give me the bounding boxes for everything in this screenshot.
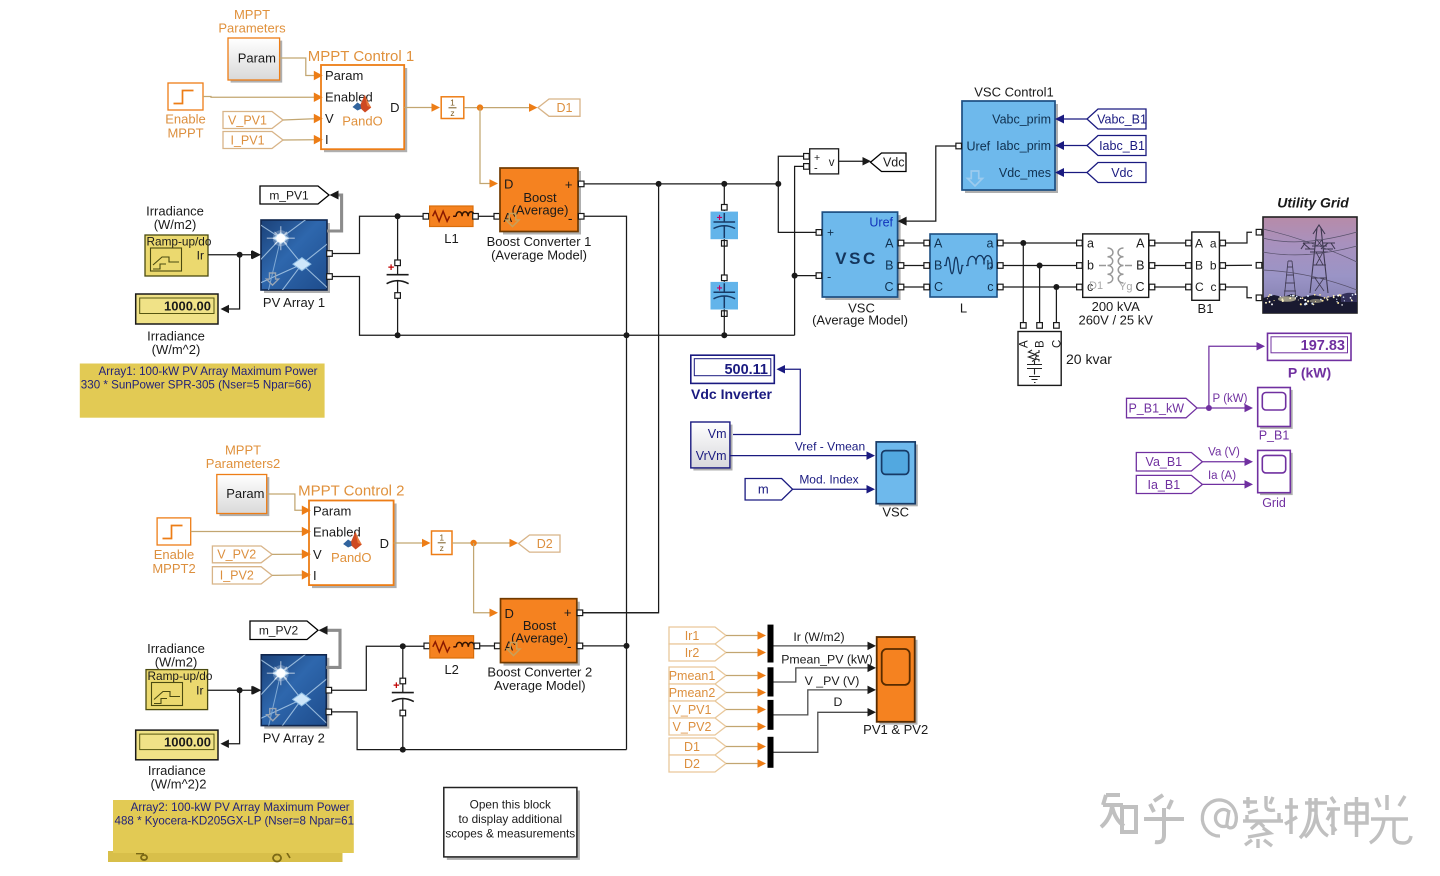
wire Va_B1 to Grid scope <box>1202 461 1246 463</box>
note Array1 annotation <box>80 364 325 418</box>
svg-text:b: b <box>1210 259 1217 273</box>
wire unit delay 2 to D2 goto and Boost2 D input <box>452 542 511 544</box>
wire D output to unit delay <box>404 107 433 109</box>
ports Boost1 outputs <box>578 181 584 187</box>
svg-text:(W/m^2)2: (W/m^2)2 <box>151 777 207 792</box>
svg-text:-: - <box>567 638 572 654</box>
svg-text:-: - <box>827 269 831 284</box>
svg-text:-: - <box>568 210 573 226</box>
capacitor C2 across PV2 <box>400 678 406 684</box>
wires VSC to L <box>904 242 924 244</box>
svg-text:+: + <box>564 605 572 620</box>
svg-text:V_PV2: V_PV2 <box>673 720 712 734</box>
wire DC+ to voltage measurement + and VSC + <box>778 156 804 184</box>
svg-text:scopes & measurements: scopes & measurements <box>445 827 575 841</box>
tag From V_PV2 (scope feed) <box>669 718 726 735</box>
svg-text:D2: D2 <box>684 757 700 771</box>
svg-text:Ir (W/m2): Ir (W/m2) <box>793 630 844 644</box>
wire Boost2 - to common rail <box>583 645 627 647</box>
mux bar 2 (Pmean) <box>768 667 774 696</box>
svg-text:VSC: VSC <box>882 505 909 520</box>
mux bar 3 (V_PV) <box>768 700 774 730</box>
svg-text:D1: D1 <box>557 101 573 115</box>
svg-text:(Average Model): (Average Model) <box>491 248 587 263</box>
wire step to Enabled input <box>203 96 314 99</box>
svg-text:to display additional: to display additional <box>458 812 562 826</box>
capacitor bank upper (blue) <box>723 184 725 211</box>
block three-phase inductor L <box>930 234 997 297</box>
watermark zhihu @ziji-shenguang <box>1101 795 1411 848</box>
svg-text:m_PV2: m_PV2 <box>259 624 299 638</box>
svg-text:P (kW): P (kW) <box>1288 365 1331 381</box>
wire unit delay to D1 goto and to Boost Converter 1 D input <box>464 107 530 109</box>
svg-text:B: B <box>1035 340 1047 348</box>
svg-text:V: V <box>325 111 334 126</box>
svg-text:330 * SunPower SPR-305 (Nser=: 330 * SunPower SPR-305 (Nser=5 Npar=66) <box>81 379 312 392</box>
wire D mux to scope <box>774 712 870 752</box>
svg-text:B: B <box>885 259 893 273</box>
svg-text:MPPT Control 2: MPPT Control 2 <box>298 483 404 500</box>
wire I_PV1 to I input <box>283 139 314 141</box>
tag From V_PV1 <box>223 112 283 129</box>
wire Pmean2 to mux <box>726 692 758 694</box>
svg-text:Vabc_B1: Vabc_B1 <box>1097 112 1147 126</box>
svg-text:z: z <box>450 108 454 118</box>
svg-text:c: c <box>987 280 993 294</box>
svg-text:P_B1: P_B1 <box>1259 429 1290 443</box>
svg-text:A: A <box>1136 237 1145 251</box>
wire between capacitors <box>723 239 725 282</box>
tag From Ia_B1 <box>1136 475 1202 493</box>
mux bar 4 (D) <box>768 737 774 768</box>
svg-text:Open this block: Open this block <box>470 798 551 812</box>
svg-text:PandO: PandO <box>331 550 371 565</box>
svg-text:L1: L1 <box>444 231 458 246</box>
tag From m (modulation index) <box>745 479 793 501</box>
svg-text:b: b <box>1087 259 1094 273</box>
svg-text:L2: L2 <box>444 662 458 677</box>
svg-text:Param: Param <box>325 68 363 83</box>
svg-text:(Average): (Average) <box>511 631 568 646</box>
svg-text:488 * Kyocera-KD205GX-LP (N: 488 * Kyocera-KD205GX-LP (Nser=8 Npar=61 <box>115 815 355 828</box>
inductor L1 <box>423 214 429 220</box>
wire step2 to Enabled <box>191 531 302 533</box>
wires L to transformer with shunt taps <box>1003 242 1078 244</box>
svg-text:Iabc_B1: Iabc_B1 <box>1099 139 1145 153</box>
svg-text:+: + <box>565 177 573 192</box>
svg-text:Array1: 100-kW PV Array Maxim: Array1: 100-kW PV Array Maximum Power <box>99 365 318 378</box>
display Irradiance value 1000.00 <box>136 294 218 324</box>
svg-text:Grid: Grid <box>1262 496 1286 510</box>
svg-text:Param: Param <box>313 503 351 518</box>
svg-text:Uref: Uref <box>869 216 893 230</box>
tag From Ir1 (scope feed) <box>669 627 726 644</box>
svg-text:1000.00: 1000.00 <box>164 735 211 750</box>
ports PV Array 1 outputs <box>327 251 333 257</box>
svg-text:Ir1: Ir1 <box>685 629 700 643</box>
wire Param to MPPT Control 1 <box>280 58 314 76</box>
svg-text:z: z <box>440 543 444 553</box>
port arrows MPPT Control 2 inputs <box>302 506 311 516</box>
svg-text:260V / 25 kV: 260V / 25 kV <box>1078 313 1153 328</box>
svg-text:a: a <box>987 237 994 251</box>
wire V_PV1 to mux <box>726 709 758 711</box>
ports Boost2 outputs <box>577 610 583 616</box>
input arrows VSC Control1 <box>1055 115 1064 124</box>
wire DC+ down to Boost2 + <box>583 184 659 613</box>
svg-text:Yg: Yg <box>1119 281 1132 293</box>
ports utility grid inputs <box>1256 229 1262 235</box>
block step source Enable MPPT2 <box>157 518 191 545</box>
wire PV2 - to bottom rail 2 <box>331 712 626 750</box>
svg-text:I: I <box>325 132 329 147</box>
wire m to VSC scope <box>793 488 868 490</box>
wires from tags to VSC Control1 <box>1064 118 1087 120</box>
svg-text:VrVm: VrVm <box>696 449 727 463</box>
wire PV1 - to bottom rail <box>332 277 795 336</box>
port arrows MPPT Control 1 inputs <box>314 71 323 81</box>
wire Pmean1 to mux <box>726 675 758 677</box>
svg-text:c: c <box>1211 280 1217 294</box>
svg-text:D: D <box>504 177 513 192</box>
wire P_B1_kW to display and scope P_B1 <box>1197 407 1209 409</box>
wire Boost1 + output DC rail <box>584 183 778 185</box>
svg-text:Param: Param <box>226 486 264 501</box>
wire Ir2 to mux <box>726 652 758 654</box>
block Ramp-up/dn irradiance source 2 <box>146 670 208 710</box>
wires down to 20 kvar bank <box>1022 243 1024 323</box>
svg-text:Vm: Vm <box>708 427 727 441</box>
wire V_PV2 to V input <box>272 553 302 555</box>
mux bar 1 (Ir) <box>768 625 774 663</box>
svg-text:D2: D2 <box>537 537 553 551</box>
tag From D2 (scope feed) <box>669 755 726 772</box>
svg-text:D1: D1 <box>684 740 700 754</box>
inductor L2 <box>424 643 430 649</box>
wire irradiance to PV Array 1 and display <box>208 254 252 256</box>
svg-text:Ramp-up/do: Ramp-up/do <box>147 235 212 249</box>
svg-text:V: V <box>313 547 322 562</box>
svg-text:V _PV (V): V _PV (V) <box>805 674 860 688</box>
svg-text:V_PV1: V_PV1 <box>228 113 267 127</box>
block unit delay 1/z <box>441 97 464 119</box>
tag From Ir2 (scope feed) <box>669 644 726 661</box>
block unit delay 1/z (2) <box>432 531 453 555</box>
wire V_PV1 to V input <box>283 119 314 120</box>
capacitor bank lower (blue) <box>711 282 739 310</box>
svg-text:Enable: Enable <box>165 112 205 127</box>
svg-text:A: A <box>934 237 943 251</box>
svg-text:Param: Param <box>238 51 276 66</box>
tag Goto m_PV1 <box>260 186 329 204</box>
scope PV1 & PV2 (orange) <box>880 640 918 725</box>
svg-text:C: C <box>1135 280 1144 294</box>
block Boost Converter 1 (Average Model) <box>503 171 581 235</box>
tag From V_PV1 (scope feed) <box>669 701 726 718</box>
tag Goto D1 <box>538 99 580 116</box>
wire Vm to Vdc Inverter display <box>733 369 800 434</box>
wire v output to Vdc goto <box>839 160 863 162</box>
svg-text:Va (V): Va (V) <box>1208 447 1240 459</box>
svg-text:197.83: 197.83 <box>1301 338 1345 354</box>
svg-text:Utility Grid: Utility Grid <box>1277 195 1349 211</box>
wire irradiance2 to PV Array 2 and display <box>208 689 252 691</box>
svg-text:m_PV1: m_PV1 <box>269 188 309 202</box>
svg-text:1: 1 <box>450 98 455 108</box>
svg-text:Vdc: Vdc <box>883 156 905 170</box>
svg-text:V_PV1: V_PV1 <box>673 703 712 717</box>
svg-text:a: a <box>1210 237 1217 251</box>
svg-text:Vabc_prim: Vabc_prim <box>992 112 1051 126</box>
tag From Pmean1 (scope feed) <box>669 667 726 684</box>
wire L2 to Boost2 A <box>479 645 495 647</box>
svg-text:P_B1_kW: P_B1_kW <box>1128 401 1184 415</box>
svg-text:PV1 & PV2: PV1 & PV2 <box>863 722 928 737</box>
svg-text:MPPT2: MPPT2 <box>152 561 195 576</box>
svg-text:Array2: 100-kW PV Array Maxim: Array2: 100-kW PV Array Maximum Power <box>131 801 350 814</box>
svg-text:-: - <box>814 163 818 175</box>
svg-text:L: L <box>960 301 967 316</box>
svg-text:v: v <box>829 157 835 169</box>
wire Pmean mux to scope <box>774 668 870 682</box>
wire I_PV2 to I input <box>272 574 302 576</box>
capacitor C1 across PV1 <box>395 260 401 266</box>
wire Ir1 to mux <box>726 635 758 637</box>
tag From V_PV2 <box>212 546 272 563</box>
svg-text:PV Array 2: PV Array 2 <box>263 731 325 746</box>
display P (kW) 197.83 <box>1268 333 1352 360</box>
wire V_PV mux to scope <box>774 690 870 715</box>
svg-text:D: D <box>390 100 399 115</box>
svg-text:Vdc_mes: Vdc_mes <box>999 166 1051 180</box>
svg-text:Ir: Ir <box>196 684 203 698</box>
svg-text:VSC: VSC <box>835 249 877 268</box>
svg-text:A: A <box>1195 237 1203 251</box>
block Boost Converter 2 (Average Model) <box>504 602 580 666</box>
svg-text:Average Model): Average Model) <box>494 678 586 693</box>
tag Goto m_PV2 <box>250 621 318 640</box>
svg-text:Mod. Index: Mod. Index <box>799 473 858 487</box>
wire Param2 to MPPT Control 2 <box>267 494 302 510</box>
tag Goto Vdc <box>871 153 907 172</box>
wire m_PV1 measurement (thick) <box>327 195 342 231</box>
block voltage measurement Vdc <box>810 149 839 174</box>
svg-text:Ia_B1: Ia_B1 <box>1148 478 1181 492</box>
svg-text:+: + <box>388 262 394 274</box>
svg-text:Uref: Uref <box>967 140 991 154</box>
display Vdc Inverter 500.11 <box>691 355 775 383</box>
wire Uref from VSC Control1 <box>903 146 958 221</box>
scope Grid <box>1260 453 1293 495</box>
svg-text:PandO: PandO <box>342 114 382 129</box>
svg-text:I_PV1: I_PV1 <box>230 133 264 147</box>
svg-text:Vref - Vmean: Vref - Vmean <box>795 440 865 454</box>
wire Ir mux to scope <box>774 645 870 647</box>
svg-text:A: A <box>885 237 894 251</box>
tag From I_PV1 <box>223 132 283 149</box>
svg-text:MPPT Control 1: MPPT Control 1 <box>308 48 414 65</box>
svg-text:+: + <box>717 213 723 224</box>
svg-text:P (kW): P (kW) <box>1213 393 1248 405</box>
svg-text:Vdc Inverter: Vdc Inverter <box>691 386 772 402</box>
wire Boost2 + up to DC rail <box>583 612 659 614</box>
block three-phase measurement B1 <box>1192 232 1220 300</box>
block step source Enable MPPT <box>168 83 203 110</box>
svg-text:Ramp-up/do: Ramp-up/do <box>148 669 213 683</box>
svg-text:Iabc_prim: Iabc_prim <box>996 139 1051 153</box>
wire L1 to Boost A <box>478 215 494 217</box>
note Open this block box <box>447 791 580 860</box>
svg-text:C: C <box>1195 280 1204 294</box>
svg-text:B1: B1 <box>1198 301 1214 316</box>
svg-text:Pmean2: Pmean2 <box>669 686 716 700</box>
svg-text:a: a <box>1087 237 1094 251</box>
svg-text:Parameters: Parameters <box>218 21 286 36</box>
svg-text:D: D <box>505 606 514 621</box>
svg-text:B: B <box>1195 259 1203 273</box>
block Ramp-up/dn irradiance source 1 <box>145 235 208 276</box>
svg-text:+: + <box>717 283 723 294</box>
wires B1 to utility grid <box>1225 232 1252 243</box>
block 20 kvar capacitor bank <box>1018 332 1061 386</box>
svg-text:D1: D1 <box>1089 280 1103 292</box>
svg-text:Va_B1: Va_B1 <box>1146 455 1183 469</box>
svg-text:MPPT: MPPT <box>167 126 203 141</box>
tag From Vabc_B1 <box>1087 109 1146 129</box>
wire D2 output to unit delay 2 <box>394 542 423 544</box>
svg-text:m: m <box>758 482 769 497</box>
svg-text:Enable: Enable <box>154 547 194 562</box>
svg-text:B: B <box>1136 259 1144 273</box>
svg-text:VSC Control1: VSC Control1 <box>974 85 1053 100</box>
svg-text:1000.00: 1000.00 <box>164 299 211 314</box>
tag From Pmean2 (scope feed) <box>669 684 726 701</box>
scope VSC (blue) <box>879 445 918 507</box>
block VSC (Average Model) <box>825 215 900 300</box>
block transformer 200 kVA <box>1083 234 1149 298</box>
wire DC- rail to VSC - and voltage measurement - <box>795 166 804 335</box>
svg-text:Pmean1: Pmean1 <box>669 669 716 683</box>
svg-text:I: I <box>313 568 317 583</box>
wire PV2 + to L2 <box>331 646 424 690</box>
display Irradiance value 1000.00 (2) <box>136 730 218 760</box>
svg-text:A: A <box>1018 340 1030 348</box>
wire PV1 + to L1 <box>332 216 423 253</box>
svg-text:C: C <box>1051 340 1063 348</box>
svg-text:C: C <box>934 280 943 294</box>
wire Boost1 - output down to bottom rail <box>584 216 627 646</box>
tag From Vdc <box>1087 163 1146 183</box>
wire V_PV2 to mux <box>726 726 758 728</box>
wires transformer to B1 <box>1154 242 1186 244</box>
svg-text:(Average Model): (Average Model) <box>812 313 908 328</box>
svg-text:500.11: 500.11 <box>724 362 768 378</box>
wire D1 to mux <box>726 746 758 748</box>
svg-text:20 kvar: 20 kvar <box>1066 351 1112 367</box>
svg-text:(W/m2): (W/m2) <box>155 655 198 670</box>
svg-text:D: D <box>380 536 389 551</box>
svg-text:Ir2: Ir2 <box>685 646 700 660</box>
svg-text:1: 1 <box>439 533 444 543</box>
note Array2 annotation <box>108 851 343 862</box>
wire m_PV2 (thick) <box>326 630 340 667</box>
svg-text:(W/m2): (W/m2) <box>154 217 197 232</box>
scope P_B1 <box>1260 390 1293 429</box>
tag From Iabc_B1 <box>1087 136 1146 156</box>
wire D2 to mux <box>726 763 758 765</box>
tag From Va_B1 <box>1136 453 1202 472</box>
svg-text:B: B <box>934 259 942 273</box>
svg-text:C: C <box>884 280 893 294</box>
wire VrVm to VSC scope <box>730 455 868 457</box>
block Param2 source <box>219 477 269 516</box>
svg-text:D: D <box>834 695 843 709</box>
svg-text:Vdc: Vdc <box>1111 166 1133 180</box>
svg-text:(W/m^2): (W/m^2) <box>152 342 201 357</box>
svg-text:Ir: Ir <box>197 249 204 263</box>
svg-text:Parameters2: Parameters2 <box>206 456 280 471</box>
svg-text:I_PV2: I_PV2 <box>220 569 254 583</box>
svg-text:Pmean_PV (kW): Pmean_PV (kW) <box>781 653 873 667</box>
svg-text:V_PV2: V_PV2 <box>217 548 256 562</box>
tag From P_B1_kW <box>1127 398 1198 418</box>
svg-text:+: + <box>827 226 834 240</box>
tag Goto D2 <box>519 535 561 552</box>
svg-text:(Average): (Average) <box>512 203 569 218</box>
wire Ia_B1 to Grid scope <box>1202 483 1246 485</box>
svg-text:+: + <box>393 680 399 692</box>
tag From D1 (scope feed) <box>669 738 726 755</box>
svg-text:Ia (A): Ia (A) <box>1208 470 1236 482</box>
svg-text:PV Array 1: PV Array 1 <box>263 295 325 310</box>
tag From I_PV2 <box>212 567 272 584</box>
